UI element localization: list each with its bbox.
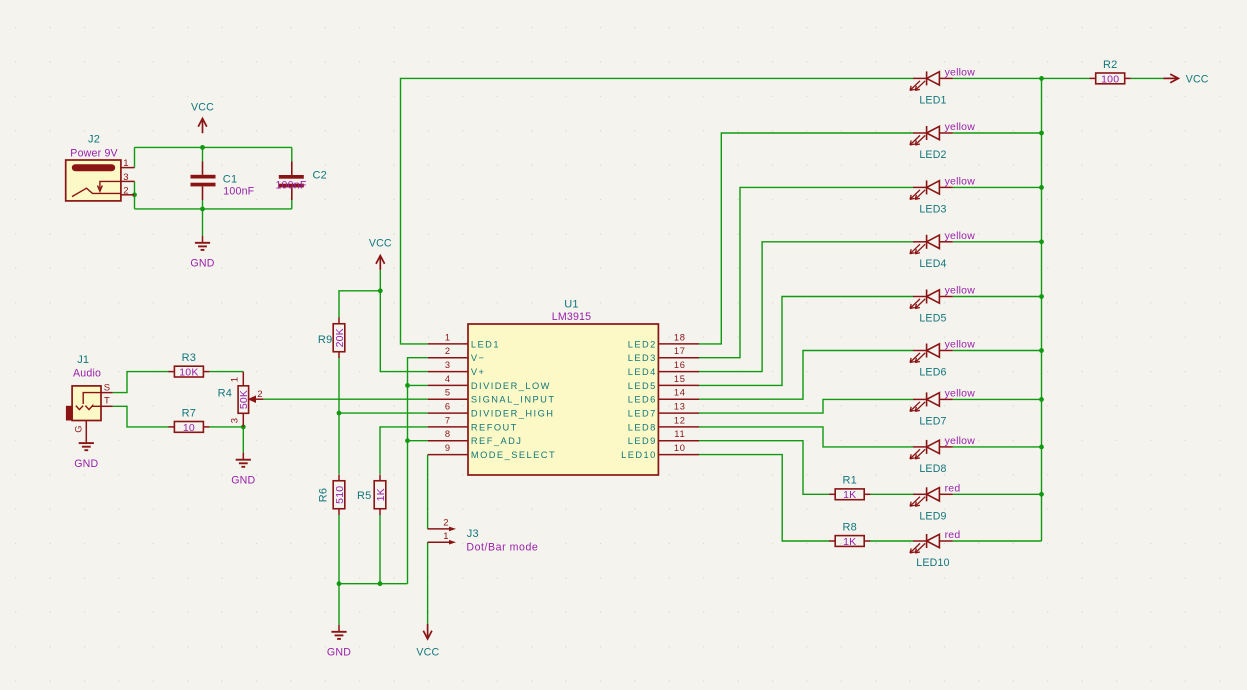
connector J1 Audio jack	[66, 354, 113, 436]
svg-text:100: 100	[1101, 73, 1119, 85]
svg-text:LED8: LED8	[919, 463, 946, 475]
wire J2 pin3-pin2 tie	[134, 181, 136, 209]
svg-text:yellow: yellow	[945, 339, 976, 351]
svg-text:LM3915: LM3915	[552, 311, 591, 323]
svg-text:7: 7	[445, 415, 450, 425]
svg-text:G: G	[74, 425, 85, 433]
svg-text:T: T	[104, 395, 110, 406]
wire to GND below C1	[202, 209, 204, 236]
power VCC above R9 node	[369, 237, 392, 270]
LED3 diode (yellow)	[910, 175, 975, 215]
U1 pin 16 LED4	[628, 360, 699, 377]
svg-text:Audio: Audio	[73, 368, 101, 380]
svg-text:3: 3	[123, 172, 128, 183]
wire R6 bottom leg	[338, 515, 340, 584]
resistor R7 10	[168, 407, 209, 434]
wire R5 bottom leg	[379, 515, 381, 584]
U1 pin 3 V+	[428, 360, 486, 377]
resistor R6 510	[318, 475, 346, 515]
svg-text:yellow: yellow	[945, 66, 976, 78]
svg-text:LED3: LED3	[919, 203, 946, 215]
wire LED5 anode to bus	[953, 296, 1042, 298]
svg-text:2: 2	[443, 518, 448, 529]
junction J2 pin2	[132, 192, 137, 197]
capacitor C2 100nF	[275, 162, 326, 201]
svg-text:100nF: 100nF	[275, 179, 306, 191]
wire U1 to LED5	[699, 297, 913, 386]
svg-text:2: 2	[445, 346, 450, 356]
wire R1 to LED9	[870, 493, 914, 495]
U1 pin 1 LED1	[428, 332, 500, 349]
svg-text:LED5: LED5	[628, 381, 657, 391]
svg-text:1K: 1K	[375, 488, 387, 501]
wire U1 to LED4	[699, 242, 913, 372]
svg-text:14: 14	[674, 388, 686, 398]
svg-text:LED10: LED10	[916, 557, 949, 569]
U1 pin 17 LED3	[628, 346, 699, 363]
junction ground rail R5	[378, 581, 383, 586]
svg-text:5: 5	[445, 388, 450, 398]
resistor R5 1K	[357, 475, 387, 515]
svg-text:DIVIDER_HIGH: DIVIDER_HIGH	[471, 409, 555, 419]
wire branch pin8 REF_ADJ	[408, 440, 428, 442]
junction bus LED6	[1039, 348, 1044, 353]
wire J1 sleeve to R3	[113, 372, 169, 393]
U1 pin 11 LED9	[628, 429, 699, 446]
svg-text:DIVIDER_LOW: DIVIDER_LOW	[471, 381, 551, 391]
wire R4 node to GND	[242, 427, 244, 453]
svg-text:R3: R3	[182, 352, 196, 364]
svg-text:GND: GND	[231, 475, 255, 487]
svg-text:2: 2	[123, 185, 128, 196]
wire U1 to LED3	[699, 187, 913, 357]
LED2 diode (yellow)	[910, 121, 975, 161]
svg-text:510: 510	[334, 486, 346, 504]
svg-text:yellow: yellow	[945, 121, 976, 133]
LED9 diode (red)	[910, 482, 960, 522]
svg-text:GND: GND	[74, 458, 98, 470]
wire U1 to LED2	[699, 133, 913, 344]
wire J3 pin1 to VCC down	[427, 542, 429, 624]
resistor R3 10K	[168, 352, 209, 379]
wire LED6 anode to bus	[953, 350, 1042, 352]
svg-text:R5: R5	[357, 490, 371, 502]
svg-text:R9: R9	[318, 334, 332, 346]
svg-text:REF_ADJ: REF_ADJ	[471, 436, 522, 446]
svg-text:R7: R7	[182, 407, 196, 419]
svg-text:16: 16	[674, 360, 686, 370]
svg-text:C2: C2	[313, 170, 327, 182]
svg-text:R8: R8	[842, 521, 856, 533]
svg-text:LED9: LED9	[628, 436, 657, 446]
U1 pin 7 REFOUT	[428, 415, 518, 432]
junction VCC node	[378, 288, 383, 293]
svg-text:LED7: LED7	[628, 409, 657, 419]
LED1 diode (yellow)	[910, 66, 975, 106]
connector J2 Power 9V barrel jack	[66, 134, 135, 201]
potentiometer R4 50K	[218, 372, 264, 427]
wire GND rail top-left	[135, 208, 292, 210]
wire R7 to R4 bottom node	[209, 426, 243, 428]
svg-text:20K: 20K	[334, 328, 346, 347]
svg-text:R6: R6	[318, 488, 330, 502]
capacitor C1 100nF	[191, 162, 255, 201]
svg-text:13: 13	[674, 402, 686, 412]
svg-text:1: 1	[443, 531, 448, 542]
wire VCC branch at R9	[339, 291, 380, 318]
svg-text:yellow: yellow	[945, 285, 976, 297]
wire ground rail bottom	[339, 583, 408, 585]
svg-text:J3: J3	[467, 528, 479, 540]
svg-text:red: red	[945, 529, 961, 541]
svg-text:100nF: 100nF	[223, 186, 254, 198]
svg-text:J1: J1	[77, 354, 89, 366]
svg-text:18: 18	[674, 332, 686, 342]
wire LED9 anode to bus	[953, 493, 1042, 495]
svg-text:R1: R1	[842, 475, 856, 487]
svg-text:LED2: LED2	[628, 339, 657, 349]
power VCC right flag	[1164, 73, 1209, 85]
junction bus LED5	[1039, 294, 1044, 299]
resistor R2 100	[1090, 59, 1131, 86]
power VCC below J3 (down arrow)	[416, 624, 439, 659]
svg-text:10: 10	[183, 422, 195, 434]
U1 pin 15 LED5	[628, 374, 699, 391]
svg-text:SIGNAL_INPUT: SIGNAL_INPUT	[471, 395, 556, 405]
wire R2 to VCC flag	[1131, 77, 1164, 79]
svg-text:LED5: LED5	[919, 313, 946, 325]
svg-text:LED2: LED2	[919, 149, 946, 161]
svg-text:8: 8	[445, 429, 450, 439]
resistor R9 20K	[318, 318, 346, 358]
svg-text:LED6: LED6	[919, 367, 946, 379]
wire LED2 anode to bus	[953, 132, 1042, 134]
wire U1 pin10 to R8	[699, 455, 830, 541]
IC U1 LM3915	[468, 299, 658, 476]
svg-text:yellow: yellow	[945, 387, 976, 399]
wire C2 bottom leg	[291, 200, 293, 209]
wire LED7 anode to bus	[953, 398, 1042, 400]
svg-text:LED6: LED6	[628, 395, 657, 405]
power GND below R4	[231, 453, 255, 487]
wire U1 to LED8	[699, 427, 913, 447]
svg-text:LED4: LED4	[919, 258, 946, 270]
wire R3 to R4 top	[209, 371, 243, 373]
U1 pin 2 V&#8722;	[428, 346, 486, 363]
svg-text:12: 12	[674, 415, 686, 425]
junction V- line pin8	[405, 438, 410, 443]
svg-text:50K: 50K	[238, 390, 250, 409]
junction bus LED2	[1039, 131, 1044, 136]
LED6 diode (yellow)	[910, 339, 975, 379]
wire U1 pin2 V- down to ground rail	[408, 358, 428, 584]
U1 pin 18 LED2	[628, 332, 699, 349]
svg-text:LED10: LED10	[621, 450, 657, 460]
wire LED10 anode to bus	[953, 540, 1042, 542]
U1 pin 5 SIGNAL_INPUT	[428, 388, 556, 405]
wire U1 to LED7	[699, 399, 913, 413]
svg-text:Dot/Bar mode: Dot/Bar mode	[466, 541, 538, 553]
wire LED1 anode to bus	[953, 77, 1042, 79]
svg-text:V−: V−	[471, 353, 486, 363]
svg-text:LED1: LED1	[919, 94, 946, 106]
wire R9-R6 vertical	[338, 358, 340, 475]
wire C1 top leg	[202, 147, 204, 161]
svg-text:11: 11	[674, 429, 685, 439]
wire VCC arrow stem node	[379, 270, 381, 291]
U1 pin 12 LED8	[628, 415, 699, 432]
svg-text:15: 15	[674, 374, 686, 384]
svg-text:6: 6	[445, 402, 450, 412]
svg-text:C1: C1	[223, 174, 237, 186]
svg-text:yellow: yellow	[945, 175, 976, 187]
junction ground rail R6	[337, 581, 342, 586]
wire R8 to LED10	[870, 540, 914, 542]
power GND below C1	[190, 236, 214, 270]
wire rail to GND symbol	[338, 584, 340, 625]
junction bus LED1	[1039, 76, 1044, 81]
svg-text:LED1: LED1	[471, 339, 500, 349]
U1 pin 10 LED10	[621, 443, 699, 460]
U1 pin 6 DIVIDER_HIGH	[428, 402, 555, 419]
U1 pin 14 LED6	[628, 388, 699, 405]
svg-text:V+: V+	[471, 367, 486, 377]
wire VCC to U1 V+ pin3	[380, 291, 428, 372]
wire U1 pin1 LED1 top run	[401, 78, 914, 344]
wire pin9 MODE_SELECT down to J3	[427, 455, 429, 529]
wire J1 tip to R7	[113, 406, 169, 427]
power VCC top-left	[191, 101, 214, 133]
svg-text:1: 1	[229, 377, 240, 382]
svg-text:LED9: LED9	[919, 510, 946, 522]
U1 pin 9 MODE_SELECT	[428, 443, 556, 460]
wire C2 top leg	[291, 147, 293, 161]
svg-text:LED8: LED8	[628, 422, 657, 432]
resistor R8 1K	[829, 521, 870, 548]
LED5 diode (yellow)	[910, 285, 975, 325]
power GND bottom-left rail	[327, 625, 351, 659]
svg-text:4: 4	[445, 374, 450, 384]
wire U1 pin11 to R1	[699, 441, 830, 495]
wire R4 wiper to pin5 SIGNAL_INPUT	[263, 398, 427, 400]
svg-text:red: red	[945, 482, 961, 494]
junction bus LED3	[1039, 185, 1044, 190]
svg-text:2: 2	[257, 389, 262, 400]
LED4 diode (yellow)	[910, 230, 975, 270]
svg-text:R2: R2	[1103, 59, 1117, 71]
svg-text:3: 3	[445, 360, 450, 370]
wire branch pin4 DIVIDER_LOW	[408, 384, 428, 386]
svg-text:17: 17	[674, 346, 686, 356]
connector J3 Dot/Bar mode	[428, 518, 539, 554]
svg-text:VCC: VCC	[191, 101, 214, 113]
junction bus LED7	[1039, 397, 1044, 402]
svg-text:MODE_SELECT: MODE_SELECT	[471, 450, 556, 460]
wire R9/R6 node to pin6 DIVIDER_HIGH	[339, 412, 428, 414]
svg-text:VCC: VCC	[369, 237, 392, 249]
junction bus LED4	[1039, 239, 1044, 244]
junction GND rail / C1	[200, 207, 205, 212]
svg-text:S: S	[104, 382, 111, 393]
wire R5 top to pin7 REFOUT	[380, 427, 428, 474]
svg-text:REFOUT: REFOUT	[471, 422, 518, 432]
svg-text:1: 1	[123, 158, 128, 169]
wire LED anode bus vertical	[1041, 78, 1043, 541]
U1 pin 8 REF_ADJ	[428, 429, 523, 446]
wire LED4 anode to bus	[953, 241, 1042, 243]
wire bus to R2	[1042, 77, 1091, 79]
svg-text:U1: U1	[564, 299, 578, 311]
U1 pin 13 LED7	[628, 402, 699, 419]
junction VCC rail / C1	[200, 145, 205, 150]
svg-text:9: 9	[445, 443, 450, 453]
junction V- line pin4	[405, 383, 410, 388]
LED8 diode (yellow)	[910, 435, 975, 475]
junction R9/R6/pin6	[337, 411, 342, 416]
svg-text:LED7: LED7	[919, 415, 946, 427]
wire VCC rail top-left	[135, 146, 292, 148]
wire LED8 anode to bus	[953, 446, 1042, 448]
svg-text:J2: J2	[88, 134, 100, 146]
svg-text:10K: 10K	[179, 367, 198, 379]
LED7 diode (yellow)	[910, 387, 975, 427]
junction R7/R4 node	[241, 425, 246, 430]
svg-text:1: 1	[445, 332, 450, 342]
resistor R1 1K	[829, 475, 870, 502]
svg-text:GND: GND	[190, 258, 214, 270]
svg-text:yellow: yellow	[945, 230, 976, 242]
wire J2 pin1 to VCC rail	[134, 147, 136, 167]
svg-text:R4: R4	[218, 388, 232, 400]
svg-text:GND: GND	[327, 647, 351, 659]
svg-text:VCC: VCC	[416, 646, 439, 658]
svg-text:1K: 1K	[843, 489, 856, 501]
wire C1 bottom leg	[202, 200, 204, 209]
svg-text:LED4: LED4	[628, 367, 657, 377]
svg-text:1K: 1K	[843, 536, 856, 548]
junction bus LED8	[1039, 445, 1044, 450]
svg-text:LED3: LED3	[628, 353, 657, 363]
svg-text:VCC: VCC	[1186, 73, 1209, 85]
wire LED3 anode to bus	[953, 186, 1042, 188]
svg-text:10: 10	[674, 443, 686, 453]
LED10 diode (red)	[910, 529, 960, 569]
wire U1 to LED6	[699, 351, 913, 400]
svg-text:Power 9V: Power 9V	[70, 147, 118, 159]
U1 pin 4 DIVIDER_LOW	[428, 374, 551, 391]
svg-text:3: 3	[229, 418, 240, 423]
junction bus LED9	[1039, 492, 1044, 497]
power GND below J1	[74, 436, 98, 470]
svg-text:yellow: yellow	[945, 435, 976, 447]
